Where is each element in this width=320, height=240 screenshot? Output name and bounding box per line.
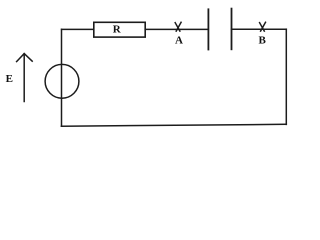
- svg-text:R: R: [113, 24, 122, 36]
- svg-text:E: E: [6, 73, 13, 85]
- svg-text:A: A: [175, 35, 183, 47]
- svg-text:B: B: [259, 35, 267, 47]
